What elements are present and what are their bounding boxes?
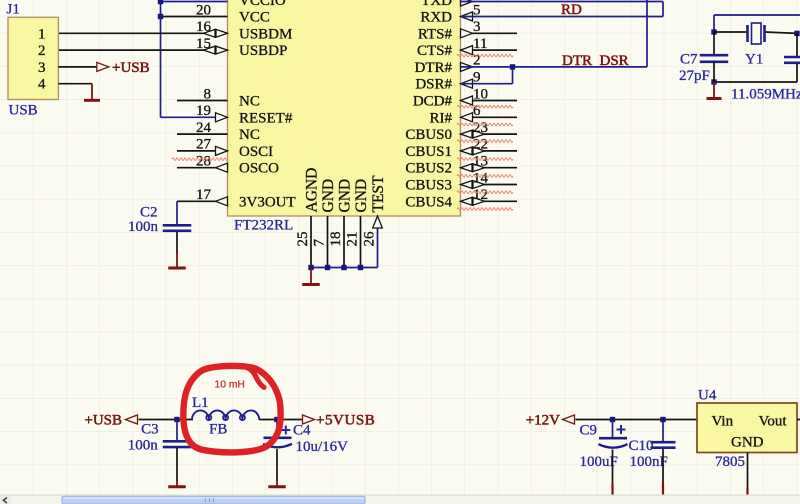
svg-text:DCD#: DCD# <box>413 94 453 110</box>
capacitor C9 polarized <box>599 437 627 440</box>
svg-text:GND: GND <box>731 435 764 451</box>
scrollbar thumb <box>62 496 365 504</box>
node GND bus junction <box>341 265 346 270</box>
inductor L1 <box>192 410 259 419</box>
wire NC24 stub <box>177 133 228 135</box>
svg-text:CTS#: CTS# <box>417 43 453 59</box>
svg-text:13: 13 <box>473 154 488 170</box>
svg-text:NC: NC <box>239 127 260 143</box>
svg-text:GND: GND <box>320 179 337 213</box>
annotation red circle around L1 <box>183 366 280 453</box>
wire RTS# stub <box>461 32 518 34</box>
ground U4 cut <box>746 488 748 496</box>
svg-text:100n: 100n <box>128 438 159 454</box>
svg-text:+USB: +USB <box>84 413 122 429</box>
svg-text:VCCIO: VCCIO <box>239 0 286 9</box>
wire C7 vertical top <box>713 32 715 54</box>
wire C8 vertical bottom <box>796 64 798 83</box>
svg-text:C7: C7 <box>680 52 698 68</box>
svg-text:3V3OUT: 3V3OUT <box>239 194 296 210</box>
pin 21 GND wire <box>360 216 362 268</box>
svg-text:CBUS2: CBUS2 <box>405 161 452 177</box>
wire C4 drop <box>276 420 278 438</box>
svg-text:CBUS1: CBUS1 <box>405 144 452 160</box>
wire C3 drop <box>176 420 178 441</box>
squiggle CBUS3 error marker <box>457 191 513 194</box>
ground C4 <box>276 479 278 487</box>
svg-text:L1: L1 <box>192 395 209 411</box>
wire RXD RD net <box>461 16 664 18</box>
wire C4 to ground <box>276 449 278 481</box>
wire C10 drop <box>662 420 664 442</box>
svg-text:FT232RL: FT232RL <box>234 218 293 234</box>
wire U4 GND down <box>747 453 749 489</box>
svg-text:Vout: Vout <box>759 414 788 430</box>
capacitor C4 polarized <box>264 436 292 439</box>
wire J1 pin3 stub <box>58 66 98 68</box>
svg-text:C4: C4 <box>293 423 311 439</box>
svg-text:GND: GND <box>336 179 353 213</box>
wire 3V3OUT stub <box>177 200 228 202</box>
svg-text:AGND: AGND <box>303 168 320 213</box>
wire CBUS3 stub <box>461 184 518 186</box>
node C4 junction <box>274 417 279 422</box>
wire DTR# <box>461 66 648 68</box>
wire 3V3OUT to C2 <box>176 201 178 224</box>
capacitor C2 <box>163 224 192 227</box>
svg-text:GND: GND <box>353 179 370 213</box>
squiggle OSCO error marker <box>172 158 228 161</box>
ground chip AGND <box>310 268 312 285</box>
svg-text:USBDP: USBDP <box>239 43 287 59</box>
svg-text:27: 27 <box>196 137 212 153</box>
wire NC8 stub <box>177 100 228 102</box>
svg-text:TEST: TEST <box>370 175 387 213</box>
svg-text:RTS#: RTS# <box>418 26 453 42</box>
regulator U4 body <box>697 403 797 453</box>
wire C7 vertical bottom <box>713 62 715 83</box>
svg-text:CBUS0: CBUS0 <box>405 127 452 143</box>
svg-text:C2: C2 <box>140 205 158 221</box>
node GND bus junction <box>308 265 313 270</box>
squiggle RI error marker <box>457 123 513 126</box>
capacitor C7 <box>700 54 729 57</box>
scrollbar track <box>0 496 800 504</box>
wire RESET# <box>161 116 228 118</box>
squiggle CBUS4 error marker <box>457 208 513 211</box>
wire OSCO stub <box>177 167 228 169</box>
node C3 junction <box>174 417 179 422</box>
pin TEST arrow <box>373 216 383 228</box>
svg-text:DTR DSR: DTR DSR <box>562 53 629 69</box>
wire GND bus <box>311 267 378 269</box>
svg-text:25: 25 <box>295 232 311 247</box>
wire VCCIO net vertical <box>160 0 162 117</box>
svg-text:1: 1 <box>38 26 46 42</box>
svg-text:16: 16 <box>196 19 212 35</box>
squiggle CBUS2 error marker <box>457 175 513 178</box>
svg-text:10u/16V: 10u/16V <box>296 439 349 455</box>
svg-text:Y1: Y1 <box>745 52 763 68</box>
svg-text:19: 19 <box>196 103 211 119</box>
wire C3 to ground <box>176 448 178 481</box>
ground C10 cut <box>662 483 664 496</box>
svg-text:2: 2 <box>38 43 46 59</box>
svg-text:28: 28 <box>196 154 211 170</box>
wire OSCI stub <box>177 150 228 152</box>
squiggle CTS error marker <box>457 54 513 57</box>
svg-text:18: 18 <box>328 232 344 247</box>
wire J1 pin4 stub <box>58 83 92 85</box>
wire CTS# stub <box>461 49 518 51</box>
wire crystal vertical <box>713 15 715 32</box>
ground crystal <box>713 82 715 99</box>
node crystal top junction <box>711 29 716 34</box>
crystal Y1 <box>746 25 749 42</box>
wire DSR# <box>461 83 513 85</box>
node crystal bottom junction <box>711 79 716 84</box>
wire crystal net top <box>714 14 800 16</box>
svg-text:8: 8 <box>204 86 212 102</box>
squiggle CBUS1 error marker <box>457 158 513 161</box>
svg-text:CBUS4: CBUS4 <box>405 194 452 210</box>
wire crystal top rail <box>714 31 747 33</box>
svg-text:USB: USB <box>9 103 38 119</box>
power port +USB bottom arrow <box>126 415 138 424</box>
svg-text:100nF: 100nF <box>630 454 668 470</box>
svg-text:OSCO: OSCO <box>239 161 279 177</box>
svg-text:C9: C9 <box>580 423 598 439</box>
wire C9 to ground <box>612 450 614 484</box>
pin 26 TEST wire <box>377 216 379 268</box>
svg-text:RXD: RXD <box>420 10 452 26</box>
svg-text:DTR#: DTR# <box>415 60 453 76</box>
wire VCCIO <box>161 1 228 3</box>
svg-text:26: 26 <box>361 231 377 247</box>
svg-text:TXD: TXD <box>421 0 452 9</box>
svg-text:J1: J1 <box>7 2 20 18</box>
node C9 junction <box>610 417 615 422</box>
squiggle DCD error marker <box>457 105 513 108</box>
connector J1 body <box>8 17 58 99</box>
wire C2 to ground <box>176 232 178 254</box>
svg-text:7: 7 <box>311 239 327 247</box>
node DTR DSR junction <box>510 64 515 69</box>
squiggle CBUS0 error marker <box>457 140 513 143</box>
wire VCC <box>161 16 228 18</box>
ground C9 cut <box>611 483 613 496</box>
svg-text:Vin: Vin <box>712 414 734 430</box>
wire CBUS1 stub <box>461 150 518 152</box>
wire crystal bottom rail <box>714 81 797 83</box>
svg-text:14: 14 <box>473 170 489 186</box>
svg-text:CBUS3: CBUS3 <box>405 178 452 194</box>
svg-text:3: 3 <box>38 60 46 76</box>
annotation red tail stroke <box>243 366 264 388</box>
svg-text:C10: C10 <box>629 438 654 454</box>
svg-text:23: 23 <box>473 120 488 136</box>
svg-text:DSR#: DSR# <box>415 77 452 93</box>
wire CBUS2 stub <box>461 167 518 169</box>
pin 7 GND wire <box>327 216 329 268</box>
wire CBUS0 stub <box>461 133 518 135</box>
svg-text:OSCI: OSCI <box>239 144 273 160</box>
svg-text:3: 3 <box>473 19 481 35</box>
svg-text:FB: FB <box>209 422 227 438</box>
svg-text:22: 22 <box>473 137 488 153</box>
wire DCD# stub <box>461 100 518 102</box>
wire RI# stub <box>461 116 518 118</box>
svg-text:+12V: +12V <box>526 413 560 429</box>
svg-text:C3: C3 <box>141 421 159 437</box>
op-amp U1 : FT232RL chip body <box>228 0 461 216</box>
node C10 junction <box>660 417 665 422</box>
ground J1 pin4 <box>91 84 93 101</box>
svg-text:RESET#: RESET# <box>239 110 293 126</box>
svg-text:+USB: +USB <box>112 60 150 76</box>
plus sign C9 <box>617 429 626 431</box>
node GND bus junction <box>358 265 363 270</box>
svg-text:VCC: VCC <box>239 10 270 26</box>
ground C3 <box>176 479 178 487</box>
svg-text:21: 21 <box>344 232 360 247</box>
wire Vout stub <box>797 419 800 421</box>
svg-text:NC: NC <box>239 94 260 110</box>
capacitor C8 partial <box>784 56 800 59</box>
plus sign C4 <box>281 429 290 431</box>
svg-text:17: 17 <box>196 187 212 203</box>
wire RD corner vertical <box>662 2 664 17</box>
svg-text:U4: U4 <box>698 388 717 404</box>
wire USBDM <box>58 32 227 34</box>
node GND bus junction <box>325 265 330 270</box>
wire +USB to L1 <box>139 419 194 421</box>
power port +5VUSB arrow <box>303 415 315 424</box>
scrollbar thumb grip <box>205 498 207 503</box>
capacitor C10 <box>651 441 676 444</box>
power port +USB top arrow <box>97 62 109 71</box>
node crystal right junction <box>794 31 799 36</box>
wire L1 to +5VUSB <box>259 419 303 421</box>
wire C10 to ground <box>662 449 664 483</box>
wire C9 drop <box>612 420 614 438</box>
svg-text:4: 4 <box>38 77 46 93</box>
node VCC junction <box>158 14 163 19</box>
wire CBUS4 stub <box>461 200 518 202</box>
wire TXD <box>461 1 664 3</box>
scrollbar divider <box>0 495 800 496</box>
wire C8 vertical top <box>796 33 798 56</box>
wire DSR vertical joint <box>512 67 514 84</box>
svg-text:10 mH: 10 mH <box>215 380 245 391</box>
wire USBDP <box>58 49 227 51</box>
svg-text:7805: 7805 <box>715 454 745 470</box>
power port +12V arrow <box>563 415 575 424</box>
svg-text:RI#: RI# <box>430 110 453 126</box>
svg-text:12: 12 <box>473 187 488 203</box>
pin 15 USBDP <box>216 46 228 54</box>
svg-text:+5VUSB: +5VUSB <box>316 413 375 429</box>
pin 16 USBDM <box>216 29 228 37</box>
scrollbar left button <box>0 496 12 504</box>
svg-text:24: 24 <box>196 120 212 136</box>
capacitor C3 <box>163 440 192 443</box>
svg-text:15: 15 <box>196 36 211 52</box>
svg-text:USBDM: USBDM <box>239 26 292 42</box>
node VCCIO junction <box>158 0 163 4</box>
svg-text:11: 11 <box>473 36 487 52</box>
pin 25 AGND wire <box>310 216 312 268</box>
pin 18 GND wire <box>343 216 345 268</box>
ground C2 <box>176 252 178 268</box>
svg-text:RD: RD <box>561 2 582 18</box>
svg-text:100n: 100n <box>128 219 159 235</box>
svg-text:11.059MHz: 11.059MHz <box>731 87 800 103</box>
svg-text:27pF: 27pF <box>679 68 710 84</box>
wire +12V to Vin <box>576 419 698 421</box>
svg-text:10: 10 <box>473 86 488 102</box>
svg-text:20: 20 <box>196 2 211 18</box>
wire DTR DSR vertical to top <box>646 0 648 67</box>
